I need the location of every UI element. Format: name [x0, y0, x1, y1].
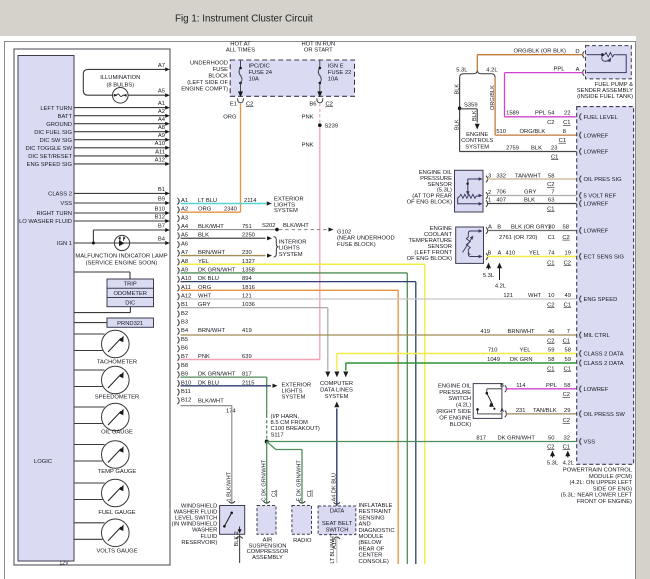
svg-text:OF ENGINE: OF ENGINE — [439, 415, 471, 421]
svg-text:46: 46 — [548, 329, 554, 335]
svg-text:5.3L: 5.3L — [547, 460, 559, 466]
svg-text:S117: S117 — [271, 432, 284, 438]
svg-text:DIC: DIC — [125, 300, 135, 306]
svg-text:B: B — [497, 225, 501, 231]
svg-text:23: 23 — [551, 145, 557, 151]
svg-text:INFLATABLE: INFLATABLE — [359, 503, 393, 509]
svg-text:LIGHTS: LIGHTS — [279, 246, 300, 252]
svg-text:C2: C2 — [547, 120, 554, 126]
svg-text:YEL: YEL — [529, 250, 541, 256]
svg-text:7: 7 — [567, 329, 570, 335]
svg-text:B8: B8 — [181, 363, 188, 369]
svg-text:FUEL GAUGE: FUEL GAUGE — [98, 510, 135, 516]
svg-text:LOWREF: LOWREF — [584, 133, 609, 139]
svg-text:OIL PRES SIG: OIL PRES SIG — [584, 177, 623, 183]
svg-text:A9: A9 — [158, 133, 165, 139]
svg-text:ASSEMBLY: ASSEMBLY — [252, 555, 283, 561]
svg-text:ORG/BLK: ORG/BLK — [490, 85, 496, 110]
svg-text:CENTER: CENTER — [359, 553, 383, 559]
svg-text:C2: C2 — [547, 338, 554, 344]
svg-text:G102: G102 — [337, 229, 351, 235]
svg-text:49: 49 — [565, 293, 571, 299]
svg-text:C DK GRN/WHT: C DK GRN/WHT — [261, 459, 267, 501]
svg-text:BLK: BLK — [472, 110, 478, 121]
svg-text:BATT: BATT — [58, 114, 73, 120]
svg-text:DATA: DATA — [330, 509, 345, 515]
svg-text:419: 419 — [480, 329, 490, 335]
svg-text:DIAGNOSTIC: DIAGNOSTIC — [359, 528, 395, 534]
svg-text:TRIP: TRIP — [124, 282, 137, 288]
svg-text:GRY: GRY — [524, 190, 537, 196]
svg-text:(SERVICE ENGINE SOON): (SERVICE ENGINE SOON) — [86, 260, 158, 266]
svg-text:FLUID: FLUID — [201, 534, 218, 540]
svg-text:WASHER: WASHER — [192, 528, 217, 534]
svg-text:2759: 2759 — [506, 145, 519, 151]
svg-text:C1: C1 — [547, 260, 554, 266]
svg-text:231: 231 — [516, 408, 526, 414]
svg-text:RIGHT TURN: RIGHT TURN — [36, 211, 72, 217]
svg-text:(4.2L): (4.2L) — [456, 403, 471, 409]
svg-text:B5: B5 — [181, 337, 188, 343]
svg-text:A7: A7 — [158, 63, 165, 69]
svg-text:SYSTEM: SYSTEM — [282, 394, 306, 400]
svg-text:S202: S202 — [262, 223, 276, 229]
svg-text:(LEFT SIDE OF: (LEFT SIDE OF — [187, 80, 228, 86]
svg-text:PRESSURE: PRESSURE — [439, 390, 471, 396]
svg-text:BLOCK: BLOCK — [208, 74, 228, 80]
svg-text:B4: B4 — [181, 328, 189, 334]
svg-text:REAR OF: REAR OF — [359, 546, 385, 552]
svg-text:2761 (OR 720): 2761 (OR 720) — [499, 235, 537, 241]
svg-text:VSS: VSS — [584, 440, 596, 446]
svg-text:B9: B9 — [158, 196, 165, 202]
svg-text:C2: C2 — [562, 235, 569, 241]
svg-text:817: 817 — [476, 435, 486, 441]
svg-text:DK GRN/WHT: DK GRN/WHT — [498, 435, 536, 441]
svg-text:FRONT OF ENGINE): FRONT OF ENGINE) — [577, 499, 632, 505]
svg-text:S359: S359 — [464, 102, 478, 108]
svg-text:1 BLK/WHT: 1 BLK/WHT — [227, 471, 233, 501]
svg-text:(5.3L: NEAR LOWER LEFT: (5.3L: NEAR LOWER LEFT — [561, 493, 633, 499]
svg-text:4.2L: 4.2L — [563, 460, 575, 466]
svg-text:A8: A8 — [158, 125, 165, 131]
svg-text:ALL TIMES: ALL TIMES — [226, 48, 255, 54]
svg-text:E DK GRN/WHT: E DK GRN/WHT — [297, 460, 303, 502]
svg-text:410: 410 — [506, 250, 516, 256]
svg-text:B6: B6 — [181, 346, 188, 352]
svg-text:CONTROLS: CONTROLS — [461, 138, 493, 144]
svg-text:ILLUMINATION: ILLUMINATION — [100, 75, 140, 81]
svg-text:SYSTEM: SYSTEM — [465, 144, 489, 150]
svg-text:A6: A6 — [181, 241, 188, 247]
svg-text:C1: C1 — [307, 490, 313, 497]
svg-text:LEVEL SWITCH: LEVEL SWITCH — [175, 516, 217, 522]
svg-text:B12: B12 — [181, 398, 191, 404]
svg-text:A12: A12 — [155, 157, 165, 163]
svg-text:FUEL LEVEL: FUEL LEVEL — [584, 115, 619, 121]
svg-text:BRN/WHT: BRN/WHT — [508, 329, 536, 335]
svg-text:OF ENG BLOCK): OF ENG BLOCK) — [407, 256, 452, 262]
svg-text:SWITCH: SWITCH — [448, 396, 471, 402]
svg-text:VSS: VSS — [60, 201, 72, 207]
svg-text:C2: C2 — [326, 101, 333, 107]
svg-text:(INSIDE FUEL TANK): (INSIDE FUEL TANK) — [577, 94, 633, 100]
svg-text:FUSE 22: FUSE 22 — [328, 70, 352, 76]
svg-text:BLK: BLK — [454, 84, 460, 95]
svg-text:54: 54 — [548, 111, 555, 117]
svg-text:ORG: ORG — [223, 115, 237, 121]
svg-text:ENG SPEED: ENG SPEED — [584, 297, 618, 303]
svg-text:B1: B1 — [158, 187, 165, 193]
svg-text:C2: C2 — [563, 418, 570, 424]
svg-text:510: 510 — [496, 129, 506, 135]
svg-text:706: 706 — [496, 190, 506, 196]
svg-text:BLK/WHT: BLK/WHT — [198, 399, 224, 405]
svg-text:SEAT BELT: SEAT BELT — [322, 521, 353, 527]
svg-text:DIC TOGGLE SW: DIC TOGGLE SW — [26, 146, 73, 152]
svg-text:WHT: WHT — [528, 293, 542, 299]
svg-text:10: 10 — [548, 293, 554, 299]
svg-text:TAN/BLK: TAN/BLK — [533, 408, 557, 414]
svg-text:E1: E1 — [230, 101, 237, 107]
svg-text:TEMP GAUGE: TEMP GAUGE — [98, 469, 137, 475]
svg-text:B7: B7 — [158, 223, 165, 229]
svg-text:ODOMETER: ODOMETER — [113, 291, 147, 297]
svg-text:POWERTRAIN CONTROL: POWERTRAIN CONTROL — [563, 468, 633, 474]
svg-text:SENDER ASSEMBLY: SENDER ASSEMBLY — [577, 88, 633, 94]
svg-text:DIC SET/RESET: DIC SET/RESET — [28, 154, 72, 160]
svg-text:59: 59 — [548, 347, 554, 353]
svg-text:A10: A10 — [155, 141, 165, 147]
svg-text:FUSE 24: FUSE 24 — [249, 70, 273, 76]
svg-text:C2: C2 — [547, 182, 554, 188]
svg-text:A1: A1 — [158, 101, 165, 107]
svg-text:A: A — [488, 225, 492, 231]
svg-text:SPEEDOMETER: SPEEDOMETER — [95, 395, 139, 401]
svg-text:HOT IN RUN: HOT IN RUN — [301, 41, 335, 47]
svg-text:BLK (OR GRY): BLK (OR GRY) — [511, 225, 550, 231]
svg-text:IGN E: IGN E — [328, 64, 344, 70]
svg-text:SENSING: SENSING — [359, 515, 386, 521]
svg-text:BRN/WHT: BRN/WHT — [198, 328, 226, 334]
svg-text:OR START: OR START — [304, 48, 333, 54]
svg-text:MODULE: MODULE — [359, 534, 384, 540]
svg-text:59: 59 — [565, 357, 571, 363]
svg-text:VOLTS GAUGE: VOLTS GAUGE — [96, 548, 137, 554]
svg-text:YEL: YEL — [520, 347, 532, 353]
svg-text:BLK 2: BLK 2 — [234, 531, 240, 546]
svg-text:PPL: PPL — [535, 111, 547, 117]
svg-text:OF ENG BLOCK): OF ENG BLOCK) — [407, 200, 452, 206]
svg-text:1589: 1589 — [506, 111, 519, 117]
svg-text:Fig 1: Instrument Cluster Circ: Fig 1: Instrument Cluster Circuit — [175, 14, 313, 25]
svg-text:A4: A4 — [158, 117, 166, 123]
svg-text:A: A — [500, 408, 504, 414]
svg-text:PPL: PPL — [546, 383, 558, 389]
svg-text:BLK/WHT: BLK/WHT — [283, 223, 309, 229]
svg-text:(RIGHT SIDE: (RIGHT SIDE — [436, 409, 471, 415]
svg-text:32: 32 — [564, 435, 570, 441]
svg-text:PNK: PNK — [302, 143, 314, 149]
svg-text:4.2L: 4.2L — [495, 283, 507, 289]
svg-text:1: 1 — [488, 198, 491, 204]
svg-text:C1: C1 — [559, 138, 566, 144]
svg-text:114: 114 — [516, 383, 526, 389]
svg-text:C1: C1 — [563, 444, 570, 450]
svg-text:ENG SPEED SIG: ENG SPEED SIG — [27, 162, 73, 168]
svg-text:5 VOLT REF: 5 VOLT REF — [584, 194, 617, 200]
svg-text:RESTRAINT: RESTRAINT — [359, 509, 392, 515]
svg-text:C1: C1 — [547, 366, 554, 372]
svg-text:80: 80 — [548, 225, 554, 231]
svg-text:PPL: PPL — [554, 67, 566, 73]
svg-text:C1: C1 — [564, 366, 571, 372]
svg-text:DIC FUEL SIG: DIC FUEL SIG — [34, 130, 72, 136]
svg-text:FUEL PUMP &: FUEL PUMP & — [595, 82, 633, 88]
svg-text:419: 419 — [242, 328, 252, 334]
svg-text:CONSOLE): CONSOLE) — [359, 559, 389, 565]
svg-text:FUSE: FUSE — [213, 67, 229, 73]
svg-text:58: 58 — [548, 173, 554, 179]
svg-text:74: 74 — [548, 250, 555, 256]
svg-text:8: 8 — [563, 129, 566, 135]
svg-text:AND: AND — [359, 522, 371, 528]
svg-text:RESERVOIR): RESERVOIR) — [181, 540, 217, 546]
svg-text:4.2L: 4.2L — [486, 67, 498, 73]
svg-text:(4.2L: ON UPPER LEFT: (4.2L: ON UPPER LEFT — [570, 480, 633, 486]
svg-text:50: 50 — [548, 435, 554, 441]
svg-text:C1: C1 — [551, 154, 558, 160]
svg-text:C1: C1 — [547, 206, 554, 212]
svg-text:22: 22 — [564, 111, 570, 117]
svg-text:MIL CTRL: MIL CTRL — [584, 333, 611, 339]
svg-text:B10: B10 — [155, 206, 165, 212]
svg-text:LOGIC: LOGIC — [34, 459, 52, 465]
svg-text:58: 58 — [563, 225, 569, 231]
svg-text:B6: B6 — [309, 101, 316, 107]
svg-text:B4: B4 — [158, 236, 166, 242]
svg-text:C2: C2 — [564, 260, 571, 266]
svg-text:(I/P HARN,: (I/P HARN, — [271, 414, 300, 420]
svg-text:WASHER FLUID: WASHER FLUID — [174, 509, 218, 515]
svg-text:A2: A2 — [158, 109, 165, 115]
svg-text:C1: C1 — [272, 490, 278, 497]
svg-text:ORG/BLK (OR BLK): ORG/BLK (OR BLK) — [513, 49, 566, 55]
svg-text:5.3L: 5.3L — [456, 67, 468, 73]
svg-text:SIDE OF ENG): SIDE OF ENG) — [593, 486, 632, 492]
svg-text:OIL GAUGE: OIL GAUGE — [101, 430, 133, 436]
svg-text:7: 7 — [551, 190, 554, 196]
svg-text:58: 58 — [548, 357, 554, 363]
svg-text:A5: A5 — [158, 89, 165, 95]
svg-text:SWITCH: SWITCH — [326, 527, 349, 533]
svg-text:C2: C2 — [547, 302, 554, 308]
svg-text:LOWREF: LOWREF — [584, 202, 609, 208]
svg-text:58: 58 — [565, 347, 571, 353]
svg-text:SYSTEM: SYSTEM — [279, 252, 303, 258]
svg-text:OIL PRESS SW: OIL PRESS SW — [584, 412, 626, 418]
svg-text:29: 29 — [564, 408, 570, 414]
svg-text:LOWREF: LOWREF — [584, 229, 609, 235]
svg-text:(BELOW: (BELOW — [359, 540, 382, 546]
svg-text:LEFT TURN: LEFT TURN — [40, 106, 72, 112]
svg-text:C1: C1 — [563, 338, 570, 344]
svg-text:BLK: BLK — [531, 145, 542, 151]
svg-text:RADIO: RADIO — [293, 538, 312, 544]
svg-text:B3: B3 — [181, 320, 188, 326]
svg-text:COMPUTER: COMPUTER — [320, 381, 353, 387]
svg-text:DATA LINES: DATA LINES — [320, 388, 353, 394]
svg-text:UNDERHOOD: UNDERHOOD — [190, 61, 228, 67]
svg-text:GROUND: GROUND — [46, 122, 72, 128]
svg-text:INTERIOR: INTERIOR — [279, 240, 307, 246]
svg-text:PRND321: PRND321 — [117, 321, 143, 327]
svg-text:DK GRN: DK GRN — [510, 357, 533, 363]
svg-text:B11: B11 — [181, 389, 191, 395]
svg-text:1049: 1049 — [487, 357, 500, 363]
svg-text:C2: C2 — [547, 444, 554, 450]
svg-text:407: 407 — [496, 198, 506, 204]
svg-text:ENGINE: ENGINE — [466, 132, 488, 138]
svg-text:C2: C2 — [563, 392, 570, 398]
svg-text:SYSTEM: SYSTEM — [325, 394, 349, 400]
svg-text:(NEAR UNDERHOOD: (NEAR UNDERHOOD — [337, 236, 395, 242]
svg-text:710: 710 — [488, 347, 498, 353]
svg-text:C1: C1 — [564, 302, 571, 308]
svg-text:HOT AT: HOT AT — [230, 41, 251, 47]
svg-text:C100 BREAKOUT): C100 BREAKOUT) — [271, 426, 320, 432]
svg-text:TACHOMETER: TACHOMETER — [97, 360, 137, 366]
svg-text:TAN/WHT: TAN/WHT — [515, 173, 541, 179]
svg-text:BLK: BLK — [454, 119, 460, 130]
svg-text:FUSE BLOCK): FUSE BLOCK) — [337, 242, 376, 248]
svg-text:PNK: PNK — [302, 115, 314, 121]
svg-text:A3: A3 — [181, 215, 188, 221]
svg-text:MODULE (PCM): MODULE (PCM) — [589, 474, 632, 480]
svg-text:63: 63 — [548, 198, 554, 204]
svg-text:LOWREF: LOWREF — [584, 150, 609, 156]
svg-text:58: 58 — [564, 383, 570, 389]
svg-text:A11: A11 — [155, 149, 165, 155]
svg-text:MALFUNCTION INDICATOR LAMP: MALFUNCTION INDICATOR LAMP — [75, 254, 167, 260]
svg-text:C1: C1 — [563, 120, 570, 126]
svg-text:10A: 10A — [249, 77, 259, 83]
svg-text:ENGINE COMPT): ENGINE COMPT) — [181, 87, 228, 93]
svg-text:B12: B12 — [155, 214, 165, 220]
svg-text:LT BLU/WHT: LT BLU/WHT — [330, 532, 336, 563]
svg-text:5.3L: 5.3L — [483, 273, 495, 279]
svg-text:12V: 12V — [59, 561, 69, 567]
svg-text:DIC SW SIG: DIC SW SIG — [39, 138, 72, 144]
svg-text:10A: 10A — [328, 77, 338, 83]
svg-text:CLASS 2 DATA: CLASS 2 DATA — [584, 352, 624, 358]
svg-text:B: B — [488, 250, 492, 256]
svg-text:S239: S239 — [325, 123, 339, 129]
svg-text:LO WASHER FLUID: LO WASHER FLUID — [19, 219, 72, 225]
svg-text:IGN 1: IGN 1 — [57, 241, 72, 247]
svg-text:(IN WINDSHIELD: (IN WINDSHIELD — [172, 522, 218, 528]
svg-text:CLASS 2: CLASS 2 — [48, 192, 72, 198]
svg-text:19: 19 — [565, 250, 571, 256]
svg-text:C2: C2 — [246, 101, 253, 107]
svg-text:ECT SENS SIG: ECT SENS SIG — [584, 255, 625, 261]
svg-text:B2: B2 — [181, 311, 188, 317]
svg-text:SYSTEM: SYSTEM — [274, 208, 298, 214]
svg-text:BLOCK): BLOCK) — [450, 422, 472, 428]
svg-text:A4 DK BLU: A4 DK BLU — [331, 473, 337, 502]
svg-text:A: A — [498, 250, 502, 256]
svg-text:B: B — [500, 383, 504, 389]
svg-text:CLASS 2 DATA: CLASS 2 DATA — [584, 361, 624, 367]
svg-text:ORG/BLK: ORG/BLK — [520, 129, 546, 135]
svg-text:BLK: BLK — [524, 198, 535, 204]
svg-text:332: 332 — [496, 173, 506, 179]
svg-text:121: 121 — [503, 293, 513, 299]
svg-text:C1: C1 — [548, 235, 555, 241]
svg-text:8.5 CM FROM: 8.5 CM FROM — [271, 420, 309, 426]
svg-text:IPC/DIC: IPC/DIC — [249, 64, 270, 70]
svg-text:WINDSHIELD: WINDSHIELD — [181, 503, 217, 509]
svg-text:ENGINE OIL: ENGINE OIL — [438, 383, 472, 389]
svg-text:LOWREF: LOWREF — [584, 387, 609, 393]
